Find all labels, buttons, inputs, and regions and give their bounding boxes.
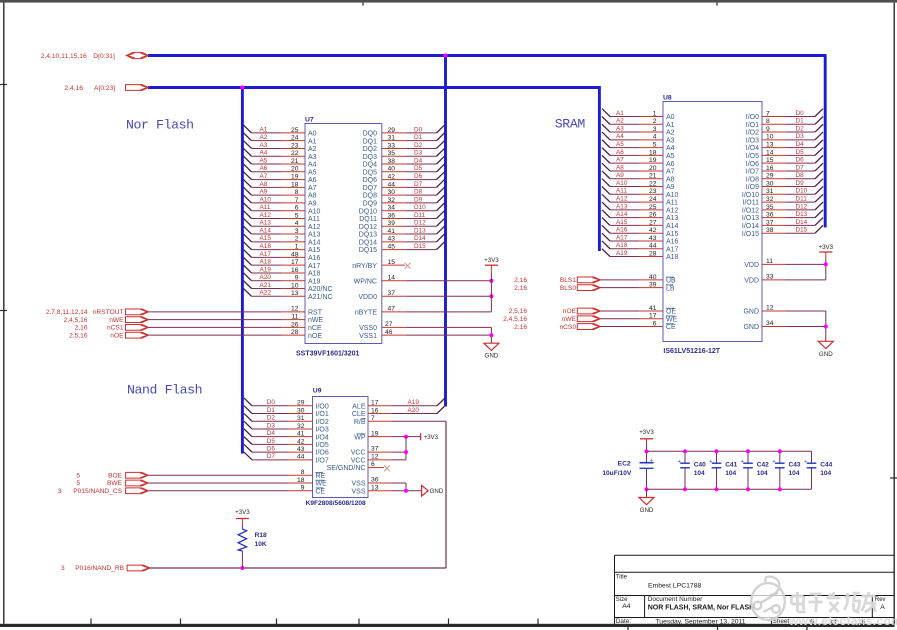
svg-text:DQ11: DQ11 [359, 216, 377, 223]
svg-text:A18: A18 [260, 259, 272, 266]
svg-text:A9: A9 [616, 172, 624, 179]
svg-text:27: 27 [649, 219, 657, 226]
svg-text:VSS: VSS [351, 481, 365, 488]
svg-text:Title: Title [616, 574, 628, 580]
svg-text:A16: A16 [260, 243, 272, 250]
svg-text:9: 9 [301, 485, 305, 492]
svg-text:A4: A4 [308, 162, 317, 169]
svg-text:ALE: ALE [352, 403, 366, 410]
svg-text:GND: GND [640, 507, 654, 514]
svg-text:DQ14: DQ14 [359, 239, 377, 246]
svg-text:40: 40 [388, 166, 396, 173]
svg-text:GND: GND [743, 324, 759, 331]
svg-text:40: 40 [649, 274, 657, 281]
svg-text:D5: D5 [796, 149, 805, 156]
svg-text:CE: CE [316, 488, 326, 495]
svg-text:A15: A15 [616, 219, 628, 226]
svg-text:+: + [772, 459, 775, 465]
svg-text:A7: A7 [308, 185, 317, 192]
svg-text:nRSTOUT: nRSTOUT [93, 309, 124, 316]
svg-text:42: 42 [388, 173, 396, 180]
svg-text:2,7,8,11,12,14: 2,7,8,11,12,14 [46, 309, 88, 316]
svg-text:A7: A7 [666, 169, 675, 176]
svg-text:nBYTE: nBYTE [355, 309, 378, 316]
svg-text:nCS1: nCS1 [107, 325, 124, 332]
svg-text:36: 36 [388, 212, 396, 219]
svg-text:30: 30 [388, 189, 396, 196]
svg-text:A10: A10 [260, 196, 272, 203]
svg-text:A12: A12 [616, 195, 628, 202]
svg-text:31: 31 [297, 415, 305, 422]
svg-text:22: 22 [649, 180, 657, 187]
svg-text:VCC: VCC [351, 450, 366, 457]
svg-text:D9: D9 [796, 180, 805, 187]
svg-text:A17: A17 [308, 263, 321, 270]
svg-text:D7: D7 [267, 453, 276, 460]
svg-text:DQ3: DQ3 [363, 154, 378, 161]
svg-text:A14: A14 [260, 227, 272, 234]
svg-text:C40: C40 [694, 461, 706, 468]
svg-text:A19: A19 [408, 399, 420, 406]
svg-text:U8: U8 [663, 94, 672, 101]
svg-text:33: 33 [388, 142, 396, 149]
svg-text:25: 25 [291, 127, 299, 134]
svg-text:A4: A4 [260, 150, 268, 157]
svg-text:37: 37 [371, 446, 379, 453]
svg-text:P015/NAND_CS: P015/NAND_CS [73, 488, 122, 495]
svg-text:Document Number: Document Number [648, 596, 703, 603]
svg-text:DQ15: DQ15 [359, 247, 377, 254]
svg-text:30: 30 [297, 407, 305, 414]
svg-text:A14: A14 [666, 223, 679, 230]
svg-text:A3: A3 [666, 137, 675, 144]
svg-text:A16: A16 [308, 255, 321, 262]
svg-text:35: 35 [766, 204, 774, 211]
svg-text:30: 30 [766, 180, 774, 187]
svg-text:A17: A17 [260, 251, 272, 258]
svg-text:I/O0: I/O0 [746, 114, 759, 121]
svg-text:C43: C43 [789, 461, 801, 468]
svg-text:BLS0: BLS0 [560, 285, 576, 292]
svg-text:15: 15 [388, 259, 396, 266]
svg-text:A22: A22 [260, 290, 272, 297]
svg-text:4: 4 [295, 220, 299, 227]
svg-text:I/O8: I/O8 [746, 176, 759, 183]
svg-text:47: 47 [388, 305, 396, 312]
svg-text:DQ2: DQ2 [363, 146, 378, 153]
svg-text:5: 5 [653, 142, 657, 149]
svg-text:WE: WE [666, 316, 678, 323]
svg-text:I/O2: I/O2 [316, 419, 329, 426]
svg-text:I/O9: I/O9 [746, 184, 759, 191]
svg-text:43: 43 [388, 236, 396, 243]
svg-text:26: 26 [649, 212, 657, 219]
svg-text:16: 16 [291, 267, 299, 274]
svg-text:2,16: 2,16 [514, 285, 527, 292]
svg-text:A2: A2 [308, 146, 317, 153]
svg-text:R/B: R/B [354, 419, 366, 426]
svg-text:DQ1: DQ1 [363, 138, 378, 145]
svg-text:D1: D1 [267, 407, 276, 414]
svg-text:Date:: Date: [616, 618, 631, 625]
svg-text:+3V3: +3V3 [235, 509, 250, 516]
svg-text:SE/GND/NC: SE/GND/NC [327, 465, 366, 472]
svg-text:D13: D13 [796, 211, 808, 218]
svg-text:A13: A13 [666, 215, 679, 222]
svg-text:A19: A19 [260, 266, 272, 273]
svg-text:1: 1 [653, 110, 657, 117]
svg-text:A13: A13 [260, 220, 272, 227]
svg-text:104: 104 [789, 470, 800, 477]
svg-text:46: 46 [385, 329, 393, 336]
svg-text:+: + [804, 459, 807, 465]
svg-text:7: 7 [766, 110, 770, 117]
svg-text:D14: D14 [796, 219, 808, 226]
svg-text:A2: A2 [260, 134, 268, 141]
svg-text:D3: D3 [414, 150, 423, 157]
svg-text:D4: D4 [267, 430, 276, 437]
svg-text:nOE: nOE [563, 308, 577, 315]
svg-text:A10: A10 [616, 180, 628, 187]
svg-text:A18: A18 [616, 242, 628, 249]
svg-text:A1: A1 [616, 110, 624, 117]
svg-text:DQ9: DQ9 [363, 201, 378, 208]
svg-text:nCS0: nCS0 [560, 324, 577, 331]
svg-text:D12: D12 [414, 220, 426, 227]
svg-text:45: 45 [388, 244, 396, 251]
svg-text:18: 18 [649, 149, 657, 156]
svg-text:SST39VF1601/3201: SST39VF1601/3201 [296, 351, 360, 358]
svg-text:34: 34 [766, 320, 774, 327]
svg-text:D9: D9 [414, 196, 423, 203]
svg-text:+3V3: +3V3 [424, 434, 439, 441]
svg-text:16: 16 [371, 407, 379, 414]
svg-text:21: 21 [291, 158, 299, 165]
svg-text:C44: C44 [820, 461, 832, 468]
svg-text:D4: D4 [414, 157, 423, 164]
svg-text:39: 39 [388, 220, 396, 227]
svg-text:BWE: BWE [107, 480, 123, 487]
svg-text:I/O5: I/O5 [746, 153, 759, 160]
svg-text:A12: A12 [260, 212, 272, 219]
svg-text:104: 104 [820, 470, 831, 477]
svg-text:2,5,16: 2,5,16 [509, 308, 528, 315]
svg-text:D14: D14 [414, 235, 426, 242]
svg-text:nWE: nWE [308, 317, 324, 324]
svg-text:I/O1: I/O1 [746, 122, 759, 129]
svg-text:I/O12: I/O12 [742, 207, 759, 214]
svg-text:A1: A1 [260, 126, 268, 133]
svg-text:6: 6 [653, 320, 657, 327]
svg-text:BOE: BOE [108, 472, 123, 479]
svg-text:VDD: VDD [744, 277, 759, 284]
svg-text:13: 13 [766, 142, 774, 149]
svg-text:DQ6: DQ6 [363, 177, 378, 184]
svg-text:DQ12: DQ12 [359, 224, 377, 231]
svg-text:2,4,16: 2,4,16 [64, 85, 83, 92]
svg-text:11: 11 [766, 258, 773, 265]
svg-text:A5: A5 [260, 157, 268, 164]
svg-text:12: 12 [766, 305, 774, 312]
svg-text:D6: D6 [796, 157, 805, 164]
svg-text:+: + [741, 459, 744, 465]
svg-text:3: 3 [653, 126, 657, 133]
svg-text:32: 32 [388, 197, 396, 204]
svg-text:VCC: VCC [351, 457, 366, 464]
svg-text:23: 23 [649, 188, 657, 195]
svg-text:C41: C41 [725, 461, 737, 468]
svg-text:+: + [709, 459, 712, 465]
svg-text:A16: A16 [666, 239, 679, 246]
svg-text:A3: A3 [260, 142, 268, 149]
svg-text:2: 2 [653, 118, 657, 125]
svg-text:A6: A6 [308, 177, 317, 184]
svg-text:I/O2: I/O2 [746, 130, 759, 137]
svg-text:U7: U7 [305, 117, 314, 124]
svg-text:9: 9 [295, 275, 299, 282]
svg-text:D3: D3 [267, 422, 276, 429]
svg-text:3: 3 [61, 565, 65, 572]
svg-text:13: 13 [291, 290, 299, 297]
svg-text:A0: A0 [308, 131, 317, 138]
svg-text:I/O4: I/O4 [746, 145, 759, 152]
svg-text:EC2: EC2 [618, 461, 631, 468]
svg-text:A5: A5 [308, 169, 317, 176]
svg-text:D11: D11 [796, 195, 808, 202]
svg-text:A13: A13 [616, 203, 628, 210]
svg-text:41: 41 [388, 228, 396, 235]
svg-text:A15: A15 [666, 231, 679, 238]
svg-text:A: A [880, 604, 885, 611]
svg-text:I/O13: I/O13 [742, 215, 759, 222]
svg-text:37: 37 [766, 219, 774, 226]
svg-text:DQ4: DQ4 [363, 162, 378, 169]
svg-text:+3V3: +3V3 [639, 429, 654, 436]
svg-text:42: 42 [297, 438, 305, 445]
svg-text:nOE: nOE [308, 333, 322, 340]
svg-text:A10: A10 [666, 192, 679, 199]
svg-text:I/O6: I/O6 [316, 450, 329, 457]
svg-text:5: 5 [295, 212, 299, 219]
svg-text:A5: A5 [666, 153, 675, 160]
svg-text:A[0:23]: A[0:23] [94, 85, 115, 92]
svg-text:10: 10 [766, 134, 774, 141]
svg-text:LB: LB [666, 285, 675, 292]
svg-text:12: 12 [291, 306, 299, 313]
svg-text:A8: A8 [666, 176, 675, 183]
svg-text:37: 37 [388, 290, 396, 297]
svg-text:R18: R18 [255, 532, 267, 539]
svg-text:A6: A6 [260, 165, 268, 172]
svg-text:GND: GND [430, 488, 444, 495]
svg-text:P016/NAND_RB: P016/NAND_RB [75, 565, 124, 572]
svg-text:A19: A19 [308, 278, 321, 285]
svg-text:D11: D11 [414, 212, 426, 219]
svg-text:D12: D12 [796, 203, 808, 210]
svg-text:27: 27 [385, 321, 393, 328]
svg-text:7: 7 [295, 197, 299, 204]
svg-text:29: 29 [766, 173, 774, 180]
svg-text:D2: D2 [414, 142, 423, 149]
svg-text:8: 8 [295, 189, 299, 196]
svg-text:RST: RST [308, 309, 323, 316]
svg-text:+: + [678, 459, 681, 465]
svg-text:I/O11: I/O11 [742, 200, 759, 207]
svg-text:2,16: 2,16 [75, 325, 88, 332]
svg-text:24: 24 [291, 135, 299, 142]
svg-text:A6: A6 [616, 149, 624, 156]
svg-text:38: 38 [766, 227, 774, 234]
svg-text:DQ8: DQ8 [363, 193, 378, 200]
svg-text:29: 29 [388, 127, 396, 134]
svg-text:16: 16 [766, 165, 774, 172]
svg-text:WP: WP [354, 434, 366, 441]
svg-text:28: 28 [649, 250, 657, 257]
svg-text:+: + [650, 458, 653, 464]
svg-text:GND: GND [743, 309, 759, 316]
svg-text:42: 42 [649, 227, 657, 234]
svg-text:12: 12 [371, 453, 379, 460]
svg-text:2,4,5,16: 2,4,5,16 [503, 316, 527, 323]
svg-text:+3V3: +3V3 [484, 257, 499, 264]
svg-text:20: 20 [649, 165, 657, 172]
svg-text:A15: A15 [308, 247, 321, 254]
svg-text:I/O6: I/O6 [746, 161, 759, 168]
svg-text:36: 36 [766, 212, 774, 219]
svg-text:Embest LPC1788: Embest LPC1788 [648, 583, 701, 590]
svg-text:10: 10 [291, 282, 299, 289]
svg-text:D13: D13 [414, 227, 426, 234]
svg-text:20: 20 [291, 166, 299, 173]
svg-text:18: 18 [291, 181, 299, 188]
svg-text:U9: U9 [313, 388, 322, 395]
svg-text:A14: A14 [616, 211, 628, 218]
svg-text:D5: D5 [267, 438, 276, 445]
svg-text:A20: A20 [260, 274, 272, 281]
svg-text:DQ0: DQ0 [363, 131, 378, 138]
svg-text:nCE: nCE [308, 325, 322, 332]
svg-text:A12: A12 [666, 207, 679, 214]
svg-text:48: 48 [291, 251, 299, 258]
svg-text:A2: A2 [616, 118, 624, 125]
svg-text:A0: A0 [666, 114, 675, 121]
svg-text:CE: CE [666, 324, 676, 331]
svg-text:+3V3: +3V3 [818, 244, 833, 251]
svg-text:I/O3: I/O3 [746, 137, 759, 144]
svg-text:18: 18 [297, 477, 305, 484]
svg-text:A11: A11 [666, 200, 678, 207]
svg-text:A10: A10 [308, 208, 321, 215]
svg-text:OE: OE [666, 309, 676, 316]
svg-text:36: 36 [371, 477, 379, 484]
svg-text:BLS1: BLS1 [560, 277, 576, 284]
svg-text:44: 44 [649, 243, 657, 250]
svg-text:22: 22 [291, 150, 299, 157]
svg-text:D1: D1 [414, 134, 423, 141]
svg-text:104: 104 [725, 470, 736, 477]
svg-text:32: 32 [766, 196, 774, 203]
svg-text:NOR FLASH, SRAM, Nor FLASH: NOR FLASH, SRAM, Nor FLASH [648, 605, 755, 612]
svg-text:A20: A20 [408, 407, 420, 414]
svg-text:6: 6 [295, 205, 299, 212]
svg-text:A20/NC: A20/NC [308, 286, 333, 293]
svg-text:41: 41 [649, 305, 657, 312]
svg-text:D4: D4 [796, 141, 805, 148]
svg-text:17: 17 [649, 313, 657, 320]
svg-text:D7: D7 [796, 164, 805, 171]
svg-text:Tuesday, September 13, 2011: Tuesday, September 13, 2011 [655, 618, 745, 625]
svg-text:DQ13: DQ13 [359, 232, 377, 239]
svg-text:23: 23 [291, 142, 299, 149]
svg-text:D8: D8 [414, 189, 423, 196]
svg-text:31: 31 [766, 188, 774, 195]
svg-text:A4: A4 [622, 603, 631, 610]
svg-text:2: 2 [295, 236, 299, 243]
svg-text:A4: A4 [616, 133, 624, 140]
svg-text:A1: A1 [666, 122, 675, 129]
svg-text:A2: A2 [666, 130, 675, 137]
svg-text:A8: A8 [616, 164, 624, 171]
svg-text:A4: A4 [666, 145, 675, 152]
svg-text:nRY/BY: nRY/BY [352, 263, 377, 270]
svg-text:DQ7: DQ7 [363, 185, 378, 192]
svg-text:4: 4 [653, 134, 657, 141]
svg-text:A17: A17 [616, 234, 628, 241]
svg-text:31: 31 [388, 135, 396, 142]
svg-text:VSS0: VSS0 [359, 325, 377, 332]
svg-text:9: 9 [766, 126, 770, 133]
svg-text:A18: A18 [666, 254, 679, 261]
svg-text:26: 26 [291, 321, 299, 328]
svg-text:I/O7: I/O7 [316, 457, 329, 464]
svg-text:I/O10: I/O10 [742, 192, 759, 199]
svg-text:24: 24 [649, 196, 657, 203]
svg-text:29: 29 [297, 400, 305, 407]
svg-text:I/O3: I/O3 [316, 427, 329, 434]
svg-text:GND: GND [819, 351, 833, 358]
svg-text:Rev: Rev [875, 597, 886, 603]
svg-text:5: 5 [76, 472, 80, 479]
svg-text:8: 8 [766, 118, 770, 125]
svg-text:38: 38 [388, 158, 396, 165]
svg-text:D0: D0 [267, 399, 276, 406]
svg-text:A7: A7 [260, 173, 268, 180]
svg-text:43: 43 [649, 235, 657, 242]
svg-text:A9: A9 [260, 189, 268, 196]
svg-text:D10: D10 [414, 204, 426, 211]
svg-text:VDD: VDD [744, 262, 759, 269]
svg-text:A11: A11 [260, 204, 271, 211]
svg-text:1: 1 [295, 244, 299, 251]
svg-text:VDD0: VDD0 [358, 294, 377, 301]
svg-text:A9: A9 [308, 201, 317, 208]
svg-text:25: 25 [649, 204, 657, 211]
svg-text:nWE: nWE [562, 316, 577, 323]
svg-text:UB: UB [666, 277, 676, 284]
svg-text:A11: A11 [308, 216, 320, 223]
svg-text:WE: WE [316, 481, 328, 488]
svg-text:44: 44 [388, 181, 396, 188]
svg-text:D15: D15 [796, 227, 808, 234]
svg-text:A19: A19 [616, 250, 628, 257]
svg-text:D10: D10 [796, 188, 808, 195]
svg-text:nWE: nWE [109, 317, 124, 324]
svg-text:7: 7 [371, 415, 375, 422]
svg-text:3: 3 [295, 228, 299, 235]
svg-text:14: 14 [388, 274, 396, 281]
svg-text:D15: D15 [414, 243, 426, 250]
svg-text:5: 5 [76, 480, 80, 487]
